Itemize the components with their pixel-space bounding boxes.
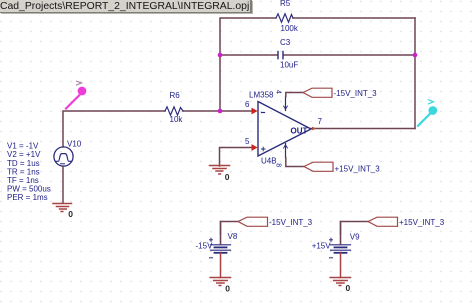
svg-text:V10: V10	[67, 140, 82, 149]
svg-text:100k: 100k	[281, 24, 299, 33]
window title tab	[0, 0, 252, 13]
pin 5 connection arrow (red)	[252, 144, 258, 151]
svg-text:0: 0	[346, 283, 351, 293]
resistor R6 10k	[165, 107, 183, 115]
svg-text:8: 8	[275, 163, 282, 167]
svg-text:LM358: LM358	[249, 90, 274, 99]
ground (0) below V10	[53, 204, 72, 212]
off-page connector +15V_INT_3 (V9)	[368, 217, 398, 226]
op-amp minus sign (pin 6 input)	[262, 112, 265, 114]
voltage probe marker (cyan, output)	[418, 107, 436, 126]
wire: V9 minus to ground	[340, 253, 342, 278]
svg-text:10k: 10k	[170, 115, 184, 124]
voltage source V10 (VPULSE)	[54, 147, 73, 166]
resistor R5 100k	[276, 14, 293, 22]
op-amp V- power pin (pin 8, bottom)	[285, 144, 287, 158]
op-amp V+ power pin (pin 4, top)	[285, 97, 287, 111]
wire: pin4 to -15V_INT_3 connector	[286, 93, 303, 97]
svg-text:OUT: OUT	[291, 126, 308, 135]
svg-text:+15V: +15V	[312, 242, 332, 251]
svg-text:R5: R5	[280, 0, 291, 8]
svg-text:-15V_INT_3: -15V_INT_3	[269, 218, 313, 227]
wire: pin 5 to ground	[220, 148, 254, 167]
wire: input from V10 to op-amp pin 6, y=111	[63, 111, 165, 147]
capacitor C3 10uF	[277, 52, 279, 59]
wire: V9 to +15V_INT_3 connector	[341, 222, 369, 245]
svg-text:+15V_INT_3: +15V_INT_3	[399, 218, 445, 227]
svg-text:0: 0	[225, 283, 230, 293]
svg-text:0: 0	[68, 209, 73, 219]
svg-text:6: 6	[245, 100, 250, 109]
wire: V10 bottom to ground	[62, 166, 64, 203]
battery V8 (-15V)	[220, 222, 222, 235]
pin 7 connection arrow (red)	[312, 127, 317, 131]
svg-text:R6: R6	[170, 91, 181, 100]
svg-text:PER = 1ms: PER = 1ms	[7, 193, 48, 202]
svg-text:0: 0	[225, 172, 230, 182]
svg-text:-15V: -15V	[196, 242, 214, 251]
wire: right vertical of feedback loop	[414, 18, 416, 129]
wire: feedback top branch (R5) y=18	[220, 18, 276, 111]
junction node dots (magenta)	[218, 53, 223, 58]
pin 6 connection arrow (red)	[252, 108, 258, 115]
svg-text:4: 4	[275, 90, 282, 94]
op-amp plus sign (pin 5 input)	[262, 148, 266, 150]
off-page connector +15V_INT_3 (op-amp bottom)	[304, 162, 333, 171]
V10 parameter text	[7, 142, 51, 202]
battery V9 (+15V)	[340, 222, 342, 235]
voltage probe marker (magenta, input)	[66, 87, 86, 108]
svg-text:V9: V9	[350, 233, 360, 242]
svg-text:+15V_INT_3: +15V_INT_3	[335, 164, 381, 173]
ground (0) at op-amp pin 5	[210, 166, 230, 175]
svg-text:10uF: 10uF	[280, 61, 298, 70]
wire: V8 to -15V_INT_3 connector	[221, 222, 239, 245]
ground (0) below V8	[210, 278, 230, 286]
svg-text:5: 5	[245, 137, 250, 146]
svg-text:C3: C3	[280, 38, 291, 47]
wire: op-amp output pin 7 to feedback node	[311, 128, 415, 130]
off-page connector -15V_INT_3 (op-amp top)	[303, 88, 332, 97]
wire: pin8 to +15V_INT_3 connector	[286, 158, 304, 167]
off-page connector -15V_INT_3 (V8)	[238, 217, 268, 226]
svg-text:U4B: U4B	[261, 157, 277, 166]
svg-text:V8: V8	[228, 232, 238, 241]
wire: V8 minus to ground	[220, 253, 222, 278]
svg-text:-15V_INT_3: -15V_INT_3	[334, 89, 378, 98]
svg-text:7: 7	[318, 117, 323, 126]
op-amp U4B LM358 triangle	[258, 102, 311, 157]
ground (0) below V9	[330, 278, 350, 286]
wire: C3 branch y=55	[220, 54, 277, 56]
